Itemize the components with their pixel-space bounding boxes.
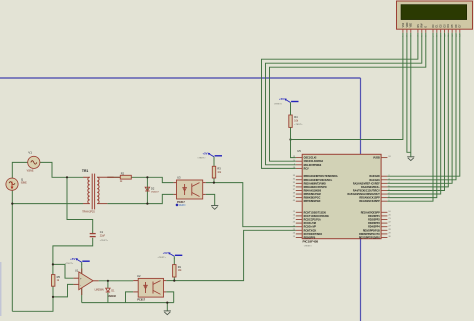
wire — [107, 176, 120, 178]
svg-text:RE0/AN5/CK1SPP: RE0/AN5/CK1SPP — [359, 197, 380, 200]
svg-text:R3: R3 — [217, 167, 221, 171]
svg-text:RD0/SPP0: RD0/SPP0 — [304, 237, 316, 240]
wire — [266, 33, 422, 165]
svg-text:RD4/SPP4: RD4/SPP4 — [368, 226, 380, 229]
svg-text:RA0/AN0: RA0/AN0 — [369, 175, 380, 178]
svg-text:<TEXT>: <TEXT> — [304, 245, 313, 248]
wire — [53, 238, 93, 275]
ground (U3) — [211, 206, 218, 210]
svg-text:RA3/AN3/VREF+: RA3/AN3/VREF+ — [361, 186, 380, 189]
wire — [131, 177, 173, 182]
junction — [52, 296, 54, 298]
wire — [173, 258, 175, 265]
svg-text:<TEXT>: <TEXT> — [274, 102, 283, 105]
svg-text:RD3/SPP3: RD3/SPP3 — [368, 222, 380, 225]
svg-text:RC1/T1OSI/CCP2/UOE: RC1/T1OSI/CCP2/UOE — [304, 215, 330, 218]
wire — [11, 190, 13, 311]
wire — [291, 127, 296, 157]
svg-text:+5V: +5V — [202, 151, 207, 155]
ground (LCD) — [407, 157, 414, 161]
wire — [291, 33, 403, 140]
wire — [107, 194, 173, 203]
svg-text:U3: U3 — [177, 176, 181, 180]
wire — [387, 33, 436, 198]
ground (U2) — [164, 311, 171, 315]
svg-text:R1: R1 — [178, 265, 182, 269]
wire — [213, 157, 215, 161]
wire — [387, 33, 433, 201]
diode D2 — [145, 186, 159, 193]
resistor R4 — [289, 115, 303, 127]
svg-text:RD1/SPP1: RD1/SPP1 — [368, 215, 380, 218]
svg-text:RE2/AN7/OESPP: RE2/AN7/OESPP — [361, 211, 380, 214]
svg-text:RB2/AN8/INT2/VMO: RB2/AN8/INT2/VMO — [304, 182, 326, 185]
wire — [81, 262, 83, 264]
wire — [82, 302, 174, 304]
wire — [146, 177, 148, 203]
wire — [270, 33, 426, 161]
wire — [206, 183, 296, 227]
svg-text:OSC2/CLKO/RA6: OSC2/CLKO/RA6 — [304, 160, 324, 163]
svg-text:VDD: VDD — [407, 22, 409, 27]
svg-text:D2: D2 — [151, 186, 155, 190]
junction — [146, 203, 148, 205]
wire — [387, 33, 444, 191]
svg-text:RB6/KBI2/PGC: RB6/KBI2/PGC — [304, 197, 321, 200]
optocoupler U2 — [133, 274, 166, 301]
diode D1 — [106, 288, 117, 298]
svg-text:RD5/SPP5/P1B: RD5/SPP5/P1B — [363, 229, 380, 232]
svg-text:RB3/AN9/CCP2/VPO: RB3/AN9/CCP2/VPO — [304, 186, 327, 189]
svg-text:VUSB: VUSB — [373, 157, 380, 160]
wire — [173, 256, 175, 258]
svg-text:R4: R4 — [294, 115, 298, 119]
resistor R5 — [52, 275, 61, 287]
svg-text:<TEXT>: <TEXT> — [197, 157, 206, 160]
svg-text:+5V: +5V — [163, 251, 168, 255]
junction — [166, 302, 168, 304]
transformer TR1 — [82, 169, 114, 213]
probe on U3 output — [176, 204, 186, 207]
junction — [107, 280, 109, 282]
power +5V (R1) — [158, 251, 183, 259]
svg-text:RA1/AN1: RA1/AN1 — [369, 179, 380, 182]
wire — [290, 103, 292, 116]
svg-text:VSINE: VSINE — [27, 171, 34, 173]
wire — [12, 162, 27, 178]
svg-text:RA2/AN2/VREF-/CVREF: RA2/AN2/VREF-/CVREF — [353, 182, 380, 185]
svg-text:OSC1/CLKI: OSC1/CLKI — [304, 157, 317, 160]
capacitor C1 — [90, 230, 109, 242]
wire — [213, 178, 215, 183]
svg-text:+5V: +5V — [70, 257, 75, 261]
svg-text:I1: I1 — [21, 177, 24, 181]
svg-text:PIC18F458: PIC18F458 — [303, 239, 319, 243]
power +5V (R4) — [274, 97, 299, 105]
wire — [387, 33, 459, 176]
svg-text:ZERO: ZERO — [179, 205, 186, 207]
wire — [407, 33, 411, 153]
wire — [40, 162, 83, 177]
svg-text:<TEXT>: <TEXT> — [294, 123, 303, 126]
wire — [166, 292, 174, 303]
svg-text:VEE: VEE — [411, 22, 413, 27]
wire — [262, 33, 418, 169]
voltage source V1 — [27, 151, 40, 173]
svg-text:+5V: +5V — [279, 97, 284, 101]
svg-text:RCV: RCV — [304, 167, 309, 170]
svg-text:PC817: PC817 — [137, 298, 145, 301]
svg-text:<TEXT>: <TEXT> — [100, 239, 109, 242]
wire — [387, 33, 456, 180]
svg-text:RC0/T1OSO/T13CKI: RC0/T1OSO/T13CKI — [304, 211, 327, 214]
svg-text:<TEXT>: <TEXT> — [158, 256, 167, 259]
optocoupler U3 — [173, 176, 205, 204]
wire — [387, 33, 448, 187]
svg-text:RD7/SPP7/P1D/RX: RD7/SPP7/P1D/RX — [359, 237, 380, 240]
junction — [213, 182, 215, 184]
svg-text:RB5/KBI1/PGM: RB5/KBI1/PGM — [304, 193, 321, 196]
wire — [166, 230, 296, 280]
resistor R2 — [107, 171, 131, 183]
wire — [410, 33, 412, 157]
current source I1 — [6, 177, 27, 190]
junction — [173, 280, 175, 282]
wire — [81, 288, 83, 303]
svg-text:RC6/TX/CK: RC6/TX/CK — [304, 229, 317, 232]
svg-text:RB4/AN11/KBI0: RB4/AN11/KBI0 — [304, 189, 322, 192]
wire — [99, 280, 134, 282]
svg-text:TRAN-2P2S: TRAN-2P2S — [82, 210, 95, 213]
svg-text:1N4148: 1N4148 — [108, 295, 117, 298]
wire — [166, 303, 168, 311]
wire — [387, 33, 440, 194]
wire — [81, 264, 83, 274]
svg-text:PC817: PC817 — [177, 201, 185, 204]
wire — [107, 293, 109, 303]
svg-text:RB1/AN10/INT1/SCK/SCL: RB1/AN10/INT1/SCK/SCL — [304, 179, 333, 182]
wire — [67, 177, 93, 233]
svg-text:RD2/SPP2: RD2/SPP2 — [368, 219, 380, 222]
svg-text:-: - — [80, 283, 81, 287]
svg-text:VSS: VSS — [403, 22, 405, 27]
resistor R1 — [173, 265, 183, 277]
wire — [53, 284, 73, 297]
wire — [107, 281, 109, 288]
svg-text:R5: R5 — [57, 275, 61, 279]
junction — [11, 203, 13, 205]
svg-text:RA4/T0CKI/C1OUT/RCV: RA4/T0CKI/C1OUT/RCV — [353, 189, 380, 192]
svg-text:1N4007: 1N4007 — [151, 192, 159, 194]
svg-text:U5: U5 — [297, 149, 301, 153]
svg-text:C1: C1 — [100, 230, 104, 234]
wire — [126, 292, 134, 303]
svg-text:V1: V1 — [28, 151, 32, 155]
svg-text:RD6/SPP6/P1C/TX: RD6/SPP6/P1C/TX — [359, 233, 380, 236]
LCD display LCD1 — [397, 1, 473, 37]
svg-text:LM358N: LM358N — [95, 288, 104, 291]
wire — [53, 264, 74, 278]
wire — [12, 286, 53, 311]
junction — [66, 176, 68, 178]
svg-text:RC7/RX/DT/SDO: RC7/RX/DT/SDO — [304, 233, 323, 236]
resistor R3 — [212, 166, 222, 178]
svg-text:RC2/CCP1/P1A: RC2/CCP1/P1A — [304, 219, 321, 222]
power +5V (op-amp) — [65, 257, 90, 265]
svg-text:RS: RS — [418, 24, 420, 28]
svg-text:U2: U2 — [137, 274, 141, 278]
svg-text:RB7/KBI3/PGD: RB7/KBI3/PGD — [304, 200, 321, 203]
svg-text:R2: R2 — [121, 171, 125, 175]
svg-text:RC4/D-/VM: RC4/D-/VM — [304, 222, 316, 225]
wire — [173, 277, 175, 281]
svg-text:MCLR/VPP/RE3: MCLR/VPP/RE3 — [304, 164, 322, 167]
svg-text:TR1: TR1 — [82, 169, 89, 173]
svg-text:22uF: 22uF — [100, 235, 106, 237]
svg-text:<TEXT>: <TEXT> — [65, 262, 74, 265]
wire — [206, 194, 215, 205]
junction — [52, 263, 54, 265]
wire — [12, 203, 83, 205]
microcontroller U5 — [293, 149, 392, 247]
svg-text:ISINE: ISINE — [21, 183, 27, 185]
junction — [289, 138, 291, 140]
junction — [146, 176, 148, 178]
op-amp U1 — [73, 269, 104, 296]
wire — [213, 160, 215, 166]
power +5V (R3) — [197, 151, 222, 159]
svg-text:RE1/AN6/CK2SPP: RE1/AN6/CK2SPP — [359, 200, 380, 203]
svg-text:RB0/AN12/INT0/FLT0/SDI/SDA: RB0/AN12/INT0/FLT0/SDI/SDA — [304, 175, 338, 178]
wire — [387, 33, 452, 184]
svg-text:RA5/AN4/SS/HLVDIN/C2OUT: RA5/AN4/SS/HLVDIN/C2OUT — [347, 193, 380, 196]
svg-text:RC5/D+/VP: RC5/D+/VP — [304, 226, 317, 229]
